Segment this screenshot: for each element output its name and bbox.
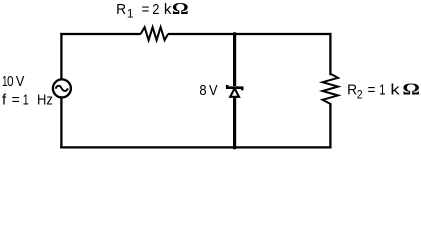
resistor R1 (141, 27, 168, 40)
wire top right segment (168, 33, 332, 35)
wire middle vertical lower (233, 97, 236, 149)
svg-text:8V: 8V (199, 82, 217, 99)
wire right vertical lower (329, 103, 331, 148)
resistor R2 (323, 74, 339, 104)
svg-text:R1=2kΩ: R1=2kΩ (116, 0, 189, 21)
wire left vertical lower (60, 97, 62, 148)
wire top left segment (60, 33, 141, 35)
wire right vertical upper (329, 33, 331, 75)
wire middle vertical upper (233, 32, 236, 86)
svg-text:10V: 10V (2, 73, 24, 90)
wire left vertical upper (60, 33, 62, 80)
source V1 sine (56, 86, 68, 91)
wire bottom (60, 146, 331, 148)
zener D1 anode triangle (230, 88, 239, 97)
zener D1 cathode bar with bent ends (227, 85, 242, 90)
svg-text:f=1Hz: f=1Hz (2, 92, 53, 109)
svg-text:R2=1kΩ: R2=1kΩ (347, 80, 420, 102)
source V1 circle (53, 79, 71, 97)
